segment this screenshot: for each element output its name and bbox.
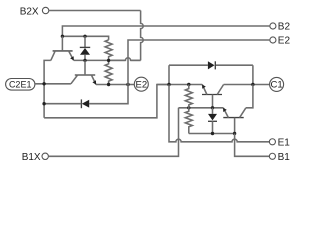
transistor Q2D (driver, left device) [51,36,74,60]
wire Q1M collector line to C1 [224,84,270,86]
wire B2 line [62,26,270,36]
terminal B1X [22,152,49,163]
junction main-base / D1S anode and Q1M base [211,106,214,109]
junction base rail / driver base [61,35,64,38]
wire main-base line (right device) [179,107,224,109]
wire Q2D collector stub to left vertical [44,60,51,117]
transistor Q1M (main, right device, inverted) [202,85,224,108]
wire B2X vertical with hops over B2 and E2 lines [141,11,144,61]
svg-text:B2X: B2X [20,6,39,17]
terminal B1 [269,152,290,163]
wire E1 upper line [157,84,202,86]
resistor R22 (main B-E) [105,60,112,84]
transistor Q1D (driver, right device, inverted) [223,108,246,134]
svg-text:B1: B1 [278,152,291,163]
wire B1 vertical to terminal [235,134,270,157]
resistor R11 (main B-E, right) [185,85,192,108]
svg-text:E2: E2 [278,36,291,47]
svg-text:E2: E2 [135,79,147,90]
junction base rail / diode D2S cathode [83,35,86,38]
wire top line corners down [169,65,253,84]
junction emitter line / E2 vertical [126,83,129,86]
terminal E1 [269,138,290,149]
terminal B2 [270,22,291,33]
node E2 (labelled circle) [134,77,148,91]
wire E1 vertical and bottom line with hops [169,85,269,142]
wire main-base node line [74,59,141,61]
junction E1 line / R11 [187,83,190,86]
svg-text:E1: E1 [278,138,291,149]
junction main-base / R11-R12 [187,106,190,109]
junction C1 line / top diode vertical [251,83,254,86]
diode D1F (freewheel, anode E1 side, cathode to C1) [208,61,215,69]
wire base rail B2 [62,36,108,40]
wire B2X to driver-emitter node (hop over E2 vertical) [109,58,141,61]
diode D1S (speed-up, cathode down to B1 line) [208,108,217,134]
junction C2E1 line / left vertical [42,82,45,85]
junction R21/R22 [107,59,110,62]
terminal B2X [20,6,49,17]
transistor Q2M (main, left device) [71,60,96,84]
svg-text:C1: C1 [271,80,283,91]
terminal C2E1 [6,79,35,91]
svg-text:B2: B2 [278,22,291,33]
wire Q2M emitter line to node E2 [96,84,134,86]
svg-text:B1X: B1X [22,152,41,163]
wire B1 line [189,133,235,135]
junction left vertical / diode line [42,102,45,105]
junction B1 line / Q1D base [233,132,236,135]
wire B1X to main-base corner [48,108,178,157]
terminal C1 (labelled circle) [270,77,284,91]
wire Q1D collector stub up to C1 line [246,85,253,108]
junction B1 line / D1S cathode [211,132,214,135]
terminal E2 [270,36,291,47]
wire top freewheel line (right device) [169,64,253,66]
wire C2E1 to E1 detour [44,85,169,118]
resistor R12 (driver B-E, right) [185,108,192,134]
junction E1 line / E1 vertical [167,83,170,86]
wire E2 line and vertical [128,40,270,85]
wire B2X horizontal [49,10,141,12]
diode D2S (speed-up, cathode up to B2 rail) [80,36,90,60]
wire E2 vertical lower to freewheel diode line [89,85,128,104]
resistor R21 (driver B-E) [105,40,112,61]
wire C2E1 to Q2M collector [35,83,71,85]
diode D2F (freewheel, cathode to C2E1) [44,99,89,108]
svg-text:C2E1: C2E1 [9,79,32,89]
junction main base / diode anode [83,59,86,62]
junction emitter line / R22 [107,83,110,86]
